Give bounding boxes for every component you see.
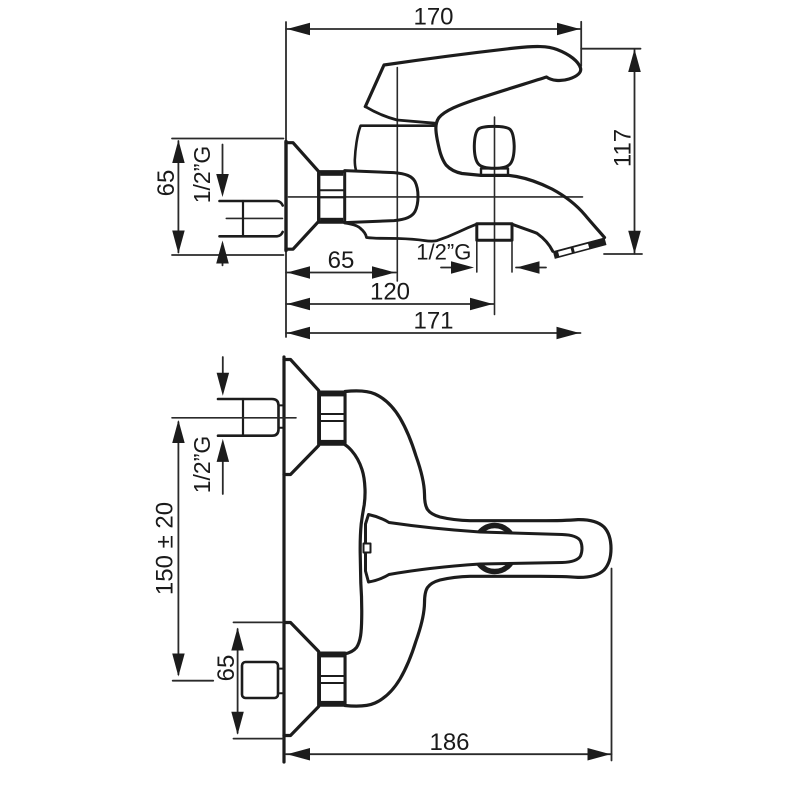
svg-text:186: 186	[429, 729, 469, 756]
svg-text:1/2”G: 1/2”G	[416, 240, 471, 265]
svg-text:1/2”G: 1/2”G	[189, 436, 215, 494]
svg-text:1/2”G: 1/2”G	[189, 146, 215, 204]
svg-text:117: 117	[610, 129, 637, 167]
svg-text:65: 65	[153, 170, 180, 197]
svg-text:120: 120	[370, 279, 410, 306]
svg-text:171: 171	[413, 308, 453, 335]
svg-text:170: 170	[413, 4, 453, 31]
svg-text:150 ± 20: 150 ± 20	[152, 502, 179, 595]
svg-text:65: 65	[328, 247, 355, 274]
svg-text:65: 65	[213, 655, 240, 682]
